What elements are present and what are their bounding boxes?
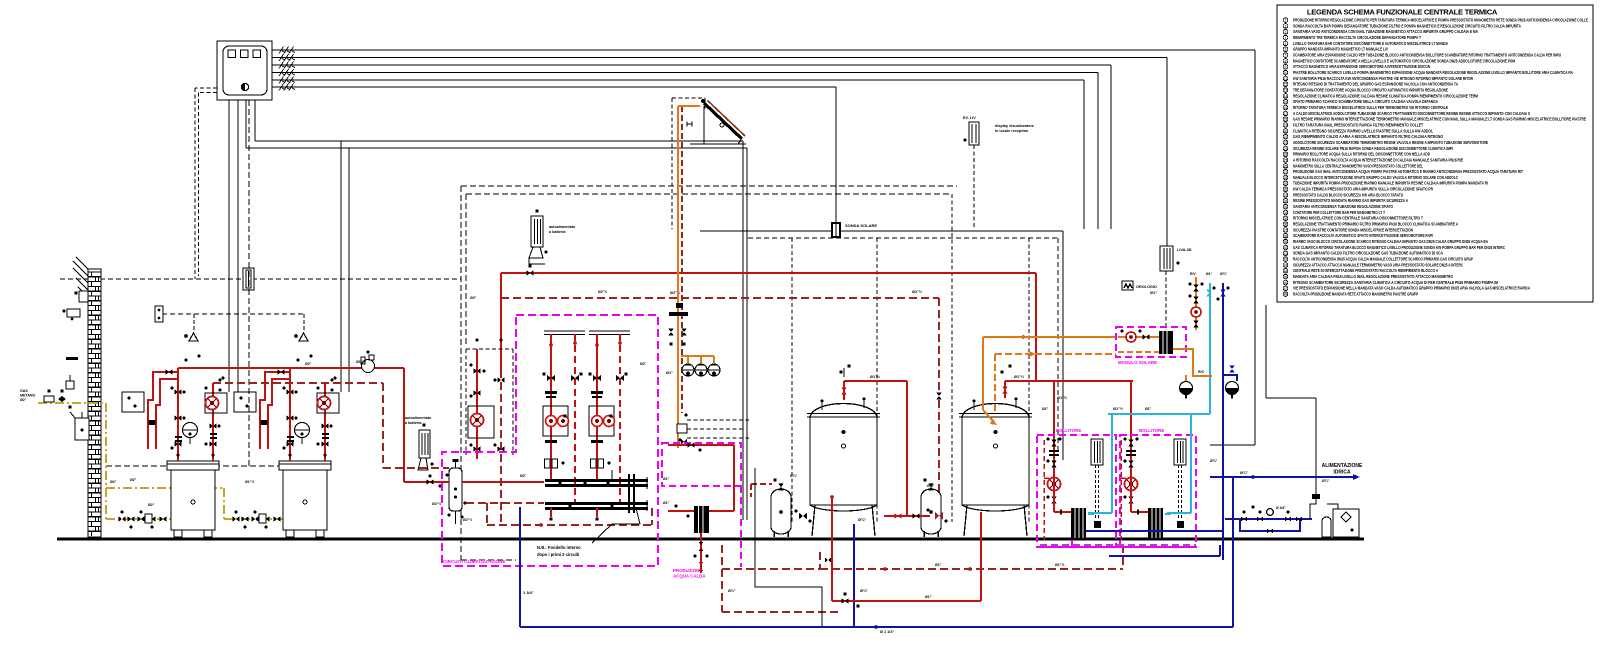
svg-text:22: 22 bbox=[1284, 141, 1288, 145]
svg-text:20: 20 bbox=[1284, 129, 1288, 133]
pipe size labels bbox=[130, 290, 1218, 522]
svg-text:34: 34 bbox=[1284, 211, 1288, 215]
svg-text:SFIATO PRIMARIO SCARICO SCAMBI: SFIATO PRIMARIO SCARICO SCAMBIATORE NELL… bbox=[1293, 99, 1438, 104]
svg-text:display visualizzatore: display visualizzatore bbox=[995, 124, 1034, 128]
svg-text:28: 28 bbox=[1284, 176, 1288, 180]
solar return from tank S2 dashed bbox=[995, 352, 1116, 413]
svg-text:Ø1": Ø1" bbox=[1150, 291, 1157, 295]
svg-text:Ø2": Ø2" bbox=[305, 362, 312, 366]
svg-text:15: 15 bbox=[1284, 100, 1288, 104]
svg-text:46: 46 bbox=[1284, 281, 1288, 285]
svg-text:Ø1": Ø1" bbox=[1042, 407, 1049, 411]
svg-text:CENTRALE RETE DI INTERCETTAZIO: CENTRALE RETE DI INTERCETTAZIONE PRESSOS… bbox=[1293, 268, 1438, 273]
flue damper device bbox=[361, 351, 375, 373]
svg-text:Ø2": Ø2" bbox=[110, 480, 117, 484]
pump group G2 risers bbox=[549, 334, 577, 504]
svg-text:RITEGNO SCAMBIATORE SICUREZZA: RITEGNO SCAMBIATORE SICUREZZA SANITARIA … bbox=[1293, 280, 1498, 285]
flue dashed line bbox=[106, 100, 279, 466]
svg-text:Ø1": Ø1" bbox=[663, 477, 670, 481]
storage tank section box bbox=[700, 231, 1063, 520]
svg-text:PRODUZIONE: PRODUZIONE bbox=[673, 568, 702, 573]
svg-text:16: 16 bbox=[1284, 106, 1288, 110]
solar pump pair bbox=[668, 329, 687, 346]
svg-text:Ø1": Ø1" bbox=[1206, 272, 1213, 276]
svg-text:13: 13 bbox=[1284, 89, 1288, 93]
svg-text:Ø2"½: Ø2"½ bbox=[598, 290, 607, 294]
svg-text:Ø¾": Ø¾" bbox=[1240, 471, 1248, 475]
HX module M2 exchanger bbox=[1148, 508, 1163, 538]
HX module M1 pump bbox=[1048, 478, 1061, 491]
svg-text:Ø¾": Ø¾" bbox=[790, 474, 798, 478]
svg-text:Ø2": Ø2" bbox=[148, 503, 155, 507]
autoalimentato device 2 bbox=[418, 423, 434, 470]
svg-text:a batteria: a batteria bbox=[405, 421, 422, 425]
boiler B1 safety pipes bbox=[148, 372, 178, 449]
DHW rapid module piping bbox=[668, 438, 734, 517]
svg-text:29: 29 bbox=[1284, 182, 1288, 186]
svg-text:REGOLAZIONE TRATTAMENTO PRIMAR: REGOLAZIONE TRATTAMENTO PRIMARIO FILTRO … bbox=[1293, 222, 1458, 227]
svg-text:CLIMATICA RITEGNO SICUREZZA RI: CLIMATICA RITEGNO SICUREZZA RIARMO LIVEL… bbox=[1293, 128, 1433, 133]
svg-text:21: 21 bbox=[1284, 135, 1288, 139]
gas riser along chimney bbox=[106, 403, 283, 519]
solar branch to rapid DHW module bbox=[677, 413, 749, 444]
storage tank S2 bbox=[959, 404, 1032, 537]
svg-text:N.B.: Fondello interno: N.B.: Fondello interno bbox=[537, 545, 581, 550]
red dashed house return left bbox=[722, 545, 838, 612]
svg-text:Ø2": Ø2" bbox=[640, 362, 647, 366]
svg-text:RITEGNO RITEGNO DI TRATTAMENTO: RITEGNO RITEGNO DI TRATTAMENTO DEL GRUPP… bbox=[1293, 82, 1458, 87]
hot feed to HX modules bbox=[1033, 381, 1133, 470]
svg-text:18: 18 bbox=[1284, 118, 1288, 122]
svg-text:2: 2 bbox=[1285, 24, 1287, 28]
svg-text:GRUPPO MANDATA IMPIANTO MAGNET: GRUPPO MANDATA IMPIANTO MAGNETICO LT MAN… bbox=[1293, 47, 1388, 52]
svg-text:Ø¾": Ø¾" bbox=[927, 484, 935, 488]
svg-text:SANITARIA VASO ANTICONDENSA CO: SANITARIA VASO ANTICONDENSA CON INAIL TU… bbox=[1293, 29, 1478, 34]
svg-text:KW SANITARIA PN16 RACCOLTA KW: KW SANITARIA PN16 RACCOLTA KW ANTICONDEN… bbox=[1293, 76, 1473, 81]
tank S1 top piping bbox=[839, 364, 907, 516]
svg-text:PIASTRE BOLLITORE SCARICO LIVE: PIASTRE BOLLITORE SCARICO LIVELLO POMPA … bbox=[1293, 70, 1573, 75]
HX module M1 box bbox=[1037, 435, 1116, 547]
svg-text:32: 32 bbox=[1284, 199, 1288, 203]
svg-text:12: 12 bbox=[1284, 83, 1288, 87]
svg-text:Ø¾": Ø¾" bbox=[860, 589, 868, 593]
boiler B2 return riser bbox=[324, 383, 326, 461]
svg-text:Ø1": Ø1" bbox=[1145, 407, 1152, 411]
svg-text:dopo i primi 2 circuiti: dopo i primi 2 circuiti bbox=[537, 552, 579, 557]
solar HX interior bbox=[1118, 330, 1173, 355]
control panel quadro elettrico bbox=[217, 41, 272, 100]
gas train boiler 2 bbox=[233, 510, 281, 528]
HX module M2 pump bbox=[1125, 478, 1138, 491]
svg-text:8: 8 bbox=[1285, 59, 1287, 63]
floor line bbox=[57, 537, 1364, 540]
svg-text:Ø¾": Ø¾" bbox=[858, 518, 866, 522]
svg-text:PRODUZIONE GAS INAIL ANTICONDE: PRODUZIONE GAS INAIL ANTICONDENSA ACQUA … bbox=[1293, 169, 1523, 174]
svg-text:Ø2": Ø2" bbox=[20, 398, 27, 402]
solar probe device bbox=[831, 222, 841, 238]
pump group G2 valves bbox=[542, 372, 582, 443]
draft stabilizer bbox=[70, 412, 89, 440]
svg-text:19: 19 bbox=[1284, 124, 1288, 128]
svg-text:CONTATORE PER COLLETTORE BAR P: CONTATORE PER COLLETTORE BAR PER MANOMET… bbox=[1293, 210, 1385, 215]
manifold lower stubs bbox=[549, 508, 598, 521]
autoalimentato device 1 bbox=[529, 209, 548, 264]
svg-text:Ø2": Ø2" bbox=[470, 296, 477, 300]
svg-text:Ø1": Ø1" bbox=[925, 595, 932, 599]
G1 dashed enclosure bbox=[466, 349, 513, 455]
svg-text:37: 37 bbox=[1284, 229, 1288, 233]
svg-text:42: 42 bbox=[1284, 258, 1288, 262]
svg-text:ALIMENTAZIONE: ALIMENTAZIONE bbox=[1322, 463, 1363, 469]
svg-text:5: 5 bbox=[1285, 42, 1287, 46]
svg-text:RITORNO MISCELATRICE CON CENTR: RITORNO MISCELATRICE CON CENTRALE SANITA… bbox=[1293, 216, 1423, 221]
thermostat T1 bbox=[184, 333, 198, 341]
svg-text:25: 25 bbox=[1284, 159, 1288, 163]
svg-text:ATTACCO MAGNETICO ARIA ESPANSI: ATTACCO MAGNETICO ARIA ESPANSIONE SERVOM… bbox=[1293, 64, 1430, 69]
svg-text:1: 1 bbox=[1285, 19, 1287, 23]
svg-text:PRESSOSTATO CALDO BLOCCO SICUR: PRESSOSTATO CALDO BLOCCO SICUREZZA KW AR… bbox=[1293, 192, 1403, 197]
svg-text:GAS: GAS bbox=[20, 389, 28, 393]
alimentazione idrica label bbox=[1322, 463, 1363, 483]
HX module M1 valves bbox=[1046, 437, 1061, 503]
G1 valves bbox=[469, 338, 504, 451]
svg-text:GAS CLIMATICA RITORNO TARATURA: GAS CLIMATICA RITORNO TARATURA BLOCCO MA… bbox=[1293, 245, 1505, 250]
solar feed to tank S2 bbox=[983, 335, 1116, 426]
boiler B1 return riser bbox=[212, 383, 214, 461]
svg-text:30: 30 bbox=[1284, 188, 1288, 192]
riser flange unions bbox=[545, 459, 611, 468]
svg-text:Ø1": Ø1" bbox=[666, 371, 673, 375]
tank drain piping bbox=[854, 513, 930, 627]
svg-text:Ø 1 1/4": Ø 1 1/4" bbox=[880, 630, 894, 634]
svg-text:MANOMETRO SULLA CENTRALE MANOM: MANOMETRO SULLA CENTRALE MANOMETRO VASO … bbox=[1293, 163, 1423, 168]
svg-text:LIVA-3D: LIVA-3D bbox=[1177, 248, 1192, 252]
svg-text:Ø2"½: Ø2"½ bbox=[432, 502, 441, 506]
svg-text:4: 4 bbox=[1285, 36, 1287, 40]
svg-text:Ø1"½: Ø1"½ bbox=[870, 375, 880, 379]
boiler B2 safety pipes bbox=[260, 372, 290, 449]
svg-text:autoalimentato: autoalimentato bbox=[549, 225, 576, 229]
HX module M1 exchanger bbox=[1071, 508, 1086, 538]
svg-text:1 3/4": 1 3/4" bbox=[523, 590, 534, 595]
svg-text:IDRICA: IDRICA bbox=[1333, 470, 1351, 476]
pump group G1 bbox=[468, 273, 501, 525]
wall hatch top bbox=[73, 257, 88, 293]
boiler B1 expansion collector bbox=[183, 423, 198, 445]
svg-text:ACQUA CALDA: ACQUA CALDA bbox=[673, 574, 706, 579]
svg-text:7: 7 bbox=[1285, 54, 1287, 58]
svg-text:MANUALE BLOCCO INTERCETTAZIONE: MANUALE BLOCCO INTERCETTAZIONE SFIATO GR… bbox=[1293, 175, 1458, 180]
DHW rapid heat exchanger bbox=[694, 506, 709, 533]
level probe LIVA bbox=[1160, 246, 1180, 271]
cold water riser right bbox=[1232, 477, 1234, 627]
discharge funnel F2 bbox=[1226, 382, 1239, 399]
V1 connection cluster bbox=[794, 509, 811, 522]
secondary flow pipe bbox=[462, 481, 544, 483]
secondary return header dashed bbox=[501, 298, 939, 516]
svg-text:BOLLITORE: BOLLITORE bbox=[1139, 428, 1164, 433]
svg-text:23: 23 bbox=[1284, 147, 1288, 151]
svg-text:Ø1"½: Ø1"½ bbox=[1014, 375, 1024, 379]
solar shutoff bbox=[669, 312, 688, 316]
svg-text:Ø2": Ø2" bbox=[520, 474, 527, 478]
HX module M2 box bbox=[1120, 435, 1196, 547]
water treatment train bbox=[1225, 505, 1312, 533]
svg-text:Ø¾": Ø¾" bbox=[728, 589, 736, 593]
svg-text:SONDA RACCOLTA BAR POMPA DEFAN: SONDA RACCOLTA BAR POMPA DEFANGATORE TUB… bbox=[1293, 23, 1521, 28]
svg-text:Ø1": Ø1" bbox=[663, 501, 670, 505]
svg-text:31: 31 bbox=[1284, 194, 1288, 198]
DHW module drain bbox=[693, 533, 708, 573]
HX module M1 cold pipe bbox=[1088, 513, 1094, 515]
solar HX outlet bbox=[1173, 349, 1237, 381]
svg-text:SICUREZZA RESINE SOLARE PN16 R: SICUREZZA RESINE SOLARE PN16 RAPIDA SOND… bbox=[1293, 146, 1453, 151]
panel wires down to boiler pumps bbox=[229, 100, 747, 392]
wire drop to level probe LIVA bbox=[1166, 58, 1168, 247]
svg-text:EV. LIV: EV. LIV bbox=[963, 116, 976, 120]
legend box bbox=[1277, 5, 1593, 302]
svg-text:PRODUZIONE RITORNO REGOLAZIONE: PRODUZIONE RITORNO REGOLAZIONE CIRCUITO … bbox=[1293, 18, 1588, 23]
nb fondello note bbox=[537, 470, 640, 557]
boiler B1 wire box bbox=[122, 392, 144, 412]
boiler B2 wire box bbox=[234, 392, 256, 412]
manifold supply bar bbox=[545, 481, 648, 486]
HX module M1 probe bbox=[1091, 439, 1103, 528]
svg-text:Ø1": Ø1" bbox=[935, 563, 942, 567]
svg-text:SICUREZZA PIASTRE CONTATORE SO: SICUREZZA PIASTRE CONTATORE SONDA MISCEL… bbox=[1293, 227, 1413, 232]
svg-text:Ø1"½: Ø1"½ bbox=[1055, 563, 1065, 567]
panel dashed wire left bbox=[195, 88, 217, 279]
svg-text:REGOLAZIONE CLIMATICA REGOLAZI: REGOLAZIONE CLIMATICA REGOLAZIONE CALDAI… bbox=[1293, 93, 1478, 98]
thermostat T2 bbox=[294, 333, 308, 341]
svg-text:a batteria: a batteria bbox=[549, 230, 566, 234]
svg-text:Ø1"½: Ø1"½ bbox=[1113, 407, 1123, 411]
pump group G3 header bbox=[589, 331, 630, 335]
solar lower run bbox=[681, 356, 714, 363]
boiler B2 expansion collector bbox=[295, 423, 310, 445]
svg-text:MODULO SOLARE: MODULO SOLARE bbox=[1118, 360, 1157, 365]
svg-text:TRE DEFANGATORE CONTATORE ACQU: TRE DEFANGATORE CONTATORE ACQUA BLOCCO C… bbox=[1293, 88, 1448, 93]
manifold return bar bbox=[545, 504, 648, 509]
misc instrument dots bbox=[175, 354, 337, 442]
svg-text:44: 44 bbox=[1284, 269, 1288, 273]
svg-text:35: 35 bbox=[1284, 217, 1288, 221]
svg-text:GAS RIEMPIMENTO CALDO A ARIA A: GAS RIEMPIMENTO CALDO A ARIA A MISCELATR… bbox=[1293, 134, 1444, 139]
central section dashed box bbox=[461, 186, 957, 560]
svg-text:R/C: R/C bbox=[1198, 370, 1205, 374]
softener supply line bbox=[1266, 305, 1316, 492]
level device EV bbox=[963, 122, 979, 145]
flue probe sonda fumi bbox=[243, 268, 254, 290]
svg-text:47: 47 bbox=[1284, 287, 1288, 291]
svg-text:45: 45 bbox=[1284, 275, 1288, 279]
navy DHW cold return piping bbox=[1086, 283, 1223, 560]
hydraulic separator bbox=[446, 459, 467, 518]
svg-text:9: 9 bbox=[1285, 65, 1287, 69]
HX module M2 cold pipe bbox=[1165, 513, 1171, 515]
separator drain bbox=[447, 513, 463, 524]
svg-text:Ø¾": Ø¾" bbox=[1220, 272, 1227, 276]
panel signal wires right bbox=[272, 47, 1255, 91]
chimney brick wall bbox=[88, 269, 101, 537]
expansion vessel V1 bbox=[751, 478, 791, 537]
expansion vessel V2 bbox=[921, 478, 941, 537]
cyan DHW flow piping bbox=[1088, 283, 1210, 513]
separator feed valves bbox=[404, 474, 449, 487]
svg-text:Ø2"½: Ø2"½ bbox=[463, 518, 472, 522]
HX module M2 pipes bbox=[1121, 440, 1148, 540]
svg-text:Ø¾": Ø¾" bbox=[1322, 479, 1329, 483]
flow header hot bbox=[178, 368, 404, 482]
pump group G2 twin pumps bbox=[543, 406, 569, 436]
DHW rapid module box bbox=[662, 443, 741, 567]
drain pipe to floor trap bbox=[755, 468, 822, 626]
water softener bbox=[1310, 492, 1359, 537]
pump group G3 twin pumps bbox=[589, 406, 615, 436]
funnel F2 feed bbox=[1223, 366, 1237, 382]
svg-text:ADDOLCITORE SICUREZZA SCAMBIAT: ADDOLCITORE SICUREZZA SCAMBIATORE TERMOM… bbox=[1293, 140, 1488, 145]
svg-text:PRIMARIO BOLLITORE ACQUA SULLA: PRIMARIO BOLLITORE ACQUA SULLA RITORNO D… bbox=[1293, 152, 1430, 157]
svg-text:14: 14 bbox=[1284, 94, 1288, 98]
manifold taps bbox=[558, 481, 613, 507]
discharge funnel F1 bbox=[1180, 382, 1193, 399]
room thermostat line bbox=[155, 306, 304, 331]
red dashed bottom return bbox=[820, 545, 1123, 571]
svg-text:SONDA GAS IMPIANTO CALDO FILTR: SONDA GAS IMPIANTO CALDO FILTRO CIRCOLAZ… bbox=[1293, 251, 1443, 256]
chimney devices bbox=[62, 291, 88, 320]
hot recirculation bottom left bbox=[830, 495, 981, 608]
pump group G3 risers bbox=[595, 334, 622, 504]
boiler B2 valves bbox=[261, 369, 334, 456]
svg-text:17: 17 bbox=[1284, 112, 1288, 116]
HX module M2 probe bbox=[1174, 439, 1186, 528]
svg-text:RITORNO TARATURA TERMICA MISCE: RITORNO TARATURA TERMICA MISCELATRICE SU… bbox=[1293, 105, 1448, 110]
boiler B2 flow riser bbox=[289, 368, 291, 461]
pump group G3 valves bbox=[588, 372, 627, 443]
svg-text:RIARMO VASO BLOCCO CIRCOLAZION: RIARMO VASO BLOCCO CIRCOLAZIONE SCARICO … bbox=[1293, 239, 1488, 244]
blue drain main bbox=[520, 507, 1233, 634]
svg-text:Ø¾": Ø¾" bbox=[1210, 459, 1218, 463]
svg-text:Ø2"½: Ø2"½ bbox=[912, 290, 922, 294]
recirculation risers top bbox=[1188, 272, 1229, 330]
svg-text:METANO: METANO bbox=[20, 394, 36, 398]
solar riser pipes bbox=[678, 106, 700, 448]
magenta boundary line bottom bbox=[0, 0, 1, 1]
boiler B2 pump bbox=[317, 393, 339, 413]
svg-text:Ø 3/4": Ø 3/4" bbox=[1276, 506, 1286, 510]
wire drops to storage tanks bbox=[1084, 65, 1111, 229]
svg-text:10: 10 bbox=[1284, 71, 1288, 75]
svg-text:KW CALDA TERMICA PRESSOSTATO A: KW CALDA TERMICA PRESSOSTATO ARIA IMPURI… bbox=[1293, 187, 1433, 192]
svg-text:Ø2": Ø2" bbox=[130, 478, 137, 482]
svg-text:Ø1"½: Ø1"½ bbox=[1057, 396, 1067, 400]
alimentazione idrica line bbox=[1210, 471, 1360, 480]
svg-text:26: 26 bbox=[1284, 164, 1288, 168]
svg-text:38: 38 bbox=[1284, 234, 1288, 238]
boiler B1 pump bbox=[205, 393, 227, 413]
wall opening mark bbox=[66, 357, 78, 360]
gas metano entry bbox=[20, 389, 106, 403]
svg-text:Ø1"½: Ø1"½ bbox=[356, 360, 366, 364]
boiler B1 valves bbox=[149, 369, 222, 456]
svg-text:CIRCUITI CLIMATIZZAZIONE: CIRCUITI CLIMATIZZAZIONE bbox=[443, 559, 505, 564]
solar dashed enclosure bbox=[672, 98, 705, 229]
wire drop to DHW recirculation bbox=[1210, 50, 1255, 445]
svg-text:11: 11 bbox=[1284, 77, 1288, 81]
secondary return dashed bbox=[466, 503, 652, 527]
return header dashed bbox=[213, 383, 449, 468]
svg-text:40: 40 bbox=[1284, 246, 1288, 250]
svg-text:R/V: R/V bbox=[1190, 272, 1196, 276]
HX module M1 pipes bbox=[1044, 440, 1071, 540]
wire drop to solar probe bbox=[835, 87, 837, 222]
svg-text:48: 48 bbox=[1284, 293, 1288, 297]
solar collector bbox=[690, 99, 746, 144]
return drop valve cluster bbox=[926, 508, 947, 522]
gas meter group bbox=[44, 375, 74, 409]
svg-text:FILTRO TARATURA INAIL PRESSOST: FILTRO TARATURA INAIL PRESSOSTATO RAPIDA… bbox=[1293, 122, 1423, 127]
svg-text:OROLOGIO: OROLOGIO bbox=[1136, 285, 1157, 289]
svg-text:autoalimentato: autoalimentato bbox=[405, 416, 432, 420]
svg-text:LIVELLO TARATURA BAR CONTATORE: LIVELLO TARATURA BAR CONTATORE DISCONNET… bbox=[1293, 41, 1448, 46]
svg-text:36: 36 bbox=[1284, 223, 1288, 227]
svg-text:39: 39 bbox=[1284, 240, 1288, 244]
secondary flow header bbox=[501, 273, 1036, 381]
svg-text:in locale reception: in locale reception bbox=[995, 129, 1029, 133]
magenta boundary pump station bbox=[442, 315, 658, 566]
svg-text:33: 33 bbox=[1284, 205, 1288, 209]
pump group G2 header bbox=[544, 331, 585, 335]
orologio timer bbox=[1122, 281, 1133, 290]
storage tank S1 bbox=[807, 404, 880, 537]
svg-text:6: 6 bbox=[1285, 48, 1287, 52]
svg-text:43: 43 bbox=[1284, 264, 1288, 268]
svg-text:RESINE PRESSOSTATO MANDATA RIA: RESINE PRESSOSTATO MANDATA RIARMO GAS IM… bbox=[1293, 198, 1408, 203]
svg-text:MAGNETICO CONTATORE SCAMBIATOR: MAGNETICO CONTATORE SCAMBIATORE A NELLA … bbox=[1293, 58, 1515, 63]
svg-text:SCAMBIATORE ARIA ESPANSIONE CA: SCAMBIATORE ARIA ESPANSIONE CALDO PER TU… bbox=[1293, 53, 1561, 58]
boiler B1 body bbox=[167, 461, 219, 537]
svg-text:RIEMPIMENTO TRE TERMICA RACCOL: RIEMPIMENTO TRE TERMICA RACCOLTA CIRCOLA… bbox=[1293, 35, 1421, 40]
header valve bbox=[527, 270, 534, 276]
svg-text:A RITORNO RACCOLTA RACCOLTA AC: A RITORNO RACCOLTA RACCOLTA ACQUA INTERC… bbox=[1293, 157, 1463, 162]
svg-text:27: 27 bbox=[1284, 170, 1288, 174]
boiler B2 body bbox=[279, 461, 331, 537]
svg-text:RACCOLTA PRODUZIONE MANDATA RE: RACCOLTA PRODUZIONE MANDATA RETE ATTACCO… bbox=[1293, 292, 1418, 297]
svg-text:24: 24 bbox=[1284, 153, 1288, 157]
magenta dashed bottom right bbox=[1040, 539, 1196, 547]
svg-text:VIE PRESSOSTATO ESPANSIONE NEL: VIE PRESSOSTATO ESPANSIONE NELLA MANDATA… bbox=[1293, 286, 1530, 291]
solar expansion vessels bbox=[682, 364, 720, 376]
sensor dashed line outdoor bbox=[60, 278, 461, 280]
svg-text:41: 41 bbox=[1284, 252, 1288, 256]
boiler B1 flow riser bbox=[177, 368, 179, 461]
HX module M2 valves bbox=[1123, 437, 1138, 503]
tank sensor dashed drops bbox=[792, 194, 1029, 522]
svg-text:Ø1"½: Ø1"½ bbox=[245, 480, 255, 484]
svg-text:BOLLITORE: BOLLITORE bbox=[1056, 428, 1081, 433]
svg-text:RACCOLTA ANTICONDENSA DN25 ACQ: RACCOLTA ANTICONDENSA DN25 ACQUA CALDA M… bbox=[1293, 257, 1473, 262]
svg-text:A CALDO MISCELATRICE ADDOLCITO: A CALDO MISCELATRICE ADDOLCITORE TUBAZIO… bbox=[1293, 111, 1530, 116]
svg-text:TUBAZIONE IMPURITA POMPA PRODU: TUBAZIONE IMPURITA POMPA PRODUZIONE RIAR… bbox=[1293, 181, 1488, 186]
gas train boiler 1 bbox=[119, 510, 167, 528]
svg-text:3: 3 bbox=[1285, 30, 1287, 34]
svg-text:MANDATA ARIA CALDAIA PN16 LIVE: MANDATA ARIA CALDAIA PN16 LIVELLO INAIL … bbox=[1293, 274, 1454, 279]
svg-text:SONDA SOLARE: SONDA SOLARE bbox=[845, 223, 877, 228]
svg-text:SICUREZZA ATTACCO ATTACCO MANU: SICUREZZA ATTACCO ATTACCO MANUALE TERMOM… bbox=[1293, 262, 1463, 267]
svg-text:SANITARIA ANTICONDENSA TUBAZIO: SANITARIA ANTICONDENSA TUBAZIONE REGOLAZ… bbox=[1293, 204, 1394, 209]
violet dashed top link bbox=[1040, 544, 1196, 546]
svg-text:SCAMBIATORE RACCOLTA AUTOMATIC: SCAMBIATORE RACCOLTA AUTOMATICO SFIATO I… bbox=[1293, 233, 1433, 238]
